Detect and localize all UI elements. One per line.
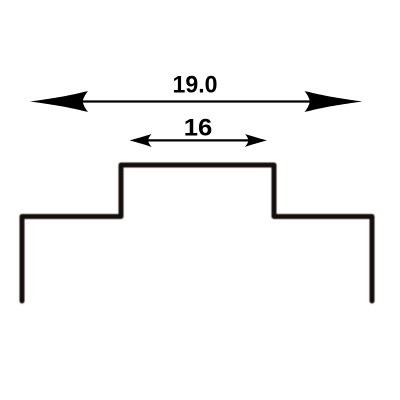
profile outline (stepped hat section) [22, 165, 372, 301]
svg-text:16: 16 [184, 115, 213, 142]
right arrowhead 19.0 [305, 91, 363, 112]
svg-text:19.0: 19.0 [173, 72, 218, 99]
dimension line 19.0 [40, 100, 353, 102]
dimension line 16 [134, 139, 263, 141]
left arrowhead 19.0 [30, 91, 88, 112]
right arrowhead 16 [245, 134, 267, 147]
left arrowhead 16 [130, 134, 152, 147]
